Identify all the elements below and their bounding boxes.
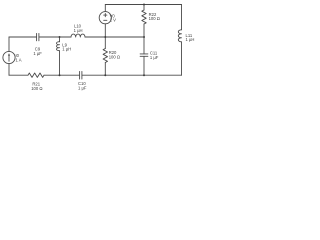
svg-text:1 µF: 1 µF <box>150 55 159 60</box>
wire bottom-right segment <box>144 74 182 76</box>
wire bottom segment R21 to L9 node <box>44 74 60 76</box>
node dot top at R22/C11 <box>143 36 145 38</box>
capacitor C11 <box>140 54 148 56</box>
svg-text:1 µH: 1 µH <box>62 47 71 52</box>
inductor L11 <box>178 30 181 42</box>
wire V0 upper lead <box>104 5 106 12</box>
wire left rail upper <box>8 37 10 51</box>
svg-text:1 A: 1 A <box>16 57 22 62</box>
node dot rail at R22 <box>143 4 145 6</box>
wire R20 lower lead <box>104 63 106 76</box>
wire bottom segment L9 node to C10 <box>60 74 80 76</box>
inductor L10 <box>71 34 85 37</box>
node dot bottom at C11 <box>143 74 145 76</box>
node dot top at V0/R20 <box>104 36 106 38</box>
node dot bottom at R20 <box>104 74 106 76</box>
wire L11 lower lead <box>181 42 183 75</box>
voltage source V0 <box>99 12 111 24</box>
node dot top at L9 <box>59 36 61 38</box>
wire upper rail <box>105 4 181 6</box>
node dot bottom at L9 <box>59 74 61 76</box>
wire L9 lower lead <box>59 51 61 75</box>
wire bottom-left segment <box>9 74 28 76</box>
svg-text:1 µF: 1 µF <box>78 86 87 91</box>
wire L9 upper lead <box>59 37 61 42</box>
svg-text:100 Ω: 100 Ω <box>31 86 42 91</box>
resistor R21 <box>28 73 44 77</box>
wire bottom segment C10 to R20 node <box>82 74 105 76</box>
svg-text:100 Ω: 100 Ω <box>149 16 160 21</box>
wire top right segment <box>85 36 144 38</box>
resistor R20 <box>103 49 107 63</box>
wire top-left horizontal segment <box>9 36 37 38</box>
wire bottom segment R20 node to C11 node <box>105 74 144 76</box>
current source I0 <box>3 51 15 63</box>
wire V0 lower lead <box>104 24 106 37</box>
svg-text:1 V: 1 V <box>110 17 116 22</box>
wire L11 upper lead <box>181 5 183 30</box>
wire C11 upper lead <box>143 37 145 54</box>
capacitor C10 <box>80 71 82 79</box>
inductor L9 <box>57 42 60 51</box>
wire left rail lower <box>8 64 10 76</box>
svg-text:100 Ω: 100 Ω <box>109 54 120 59</box>
svg-text:1 µH: 1 µH <box>186 37 195 42</box>
svg-text:1 µF: 1 µF <box>33 51 42 56</box>
wire top middle segment <box>39 36 71 38</box>
wire R20 upper lead <box>104 37 106 49</box>
svg-text:1 µH: 1 µH <box>74 28 83 33</box>
wire R22 lower lead <box>143 24 145 37</box>
wire R22 upper lead <box>143 5 145 11</box>
wire C11 lower lead <box>143 56 145 75</box>
resistor R22 <box>142 10 146 24</box>
capacitor C9 <box>37 33 39 40</box>
